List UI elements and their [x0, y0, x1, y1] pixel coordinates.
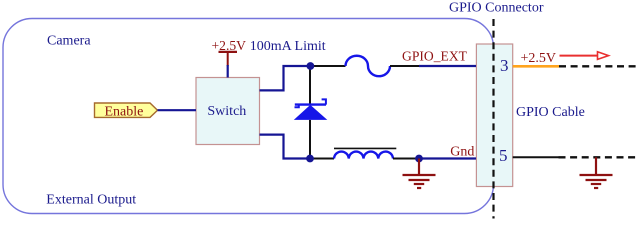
port Enable: [95, 103, 158, 117]
wire switch right-top to node A: [260, 66, 311, 90]
wire GPIO_EXT to connector pin 3: [419, 65, 476, 67]
svg-text:100mA Limit: 100mA Limit: [250, 39, 326, 54]
zener D1 cathode left hook: [295, 105, 299, 108]
ground GND2 (right): [580, 157, 613, 188]
zener D1 anode triangle: [294, 105, 328, 120]
wire Gnd to connector pin 5: [419, 157, 476, 159]
svg-text:Switch: Switch: [207, 104, 246, 119]
zener D1 cathode right hook: [322, 99, 326, 104]
svg-text:GPIO Connector: GPIO Connector: [449, 1, 544, 16]
switch U1 body: [196, 78, 260, 145]
svg-text:+2.5V: +2.5V: [521, 51, 557, 66]
connector J1 body: [476, 44, 512, 187]
svg-text:3: 3: [500, 56, 509, 75]
fuse F1 left pin: [311, 65, 346, 67]
zener D1 bottom pin: [309, 120, 311, 159]
inductor L1 right pin: [393, 158, 419, 160]
svg-text:Enable: Enable: [105, 104, 144, 119]
connector boundary dashed line: [492, 19, 494, 219]
cable dashed wire top: [559, 65, 639, 67]
wire Enable to Switch: [158, 109, 197, 111]
svg-text:5: 5: [499, 146, 508, 165]
ground GND1 (middle): [403, 159, 436, 189]
svg-text:GPIO_EXT: GPIO_EXT: [402, 48, 468, 63]
power +2.5V left symbol bar: [219, 51, 238, 53]
power +2.5V right arrow: [560, 55, 599, 57]
camera block outline (rounded rectangle): [3, 19, 494, 214]
zener D1 top pin: [309, 66, 311, 104]
node A junction: [307, 62, 315, 70]
node C junction (gnd tap): [415, 155, 423, 163]
fuse F1 body: [346, 56, 391, 76]
power +2.5V left pin: [227, 52, 229, 66]
inductor L1 left pin: [310, 158, 334, 160]
fuse F1 right pin: [390, 65, 420, 67]
wire power to switch top: [227, 65, 229, 78]
node B junction: [306, 155, 314, 163]
svg-text:External Output: External Output: [46, 193, 136, 208]
svg-text:GPIO Cable: GPIO Cable: [516, 105, 585, 120]
svg-text:Camera: Camera: [47, 34, 91, 49]
zener D1 cathode bar: [295, 103, 326, 105]
cable dashed wire bottom: [559, 156, 639, 158]
svg-text:Gnd: Gnd: [450, 145, 474, 160]
inductor L1 coils: [334, 152, 393, 159]
wire connector pin3 to +2.5V rail (orange): [513, 65, 559, 68]
wire connector pin5 out: [513, 156, 559, 158]
wire switch right-bottom to node B: [260, 135, 311, 159]
inductor L1 core bar: [334, 147, 396, 149]
